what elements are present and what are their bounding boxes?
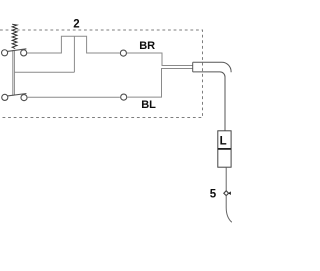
svg-text:L: L <box>220 136 227 148</box>
svg-text:5: 5 <box>210 189 217 201</box>
svg-text:2: 2 <box>73 19 79 31</box>
svg-text:BL: BL <box>141 99 156 111</box>
svg-text:BR: BR <box>139 40 155 52</box>
